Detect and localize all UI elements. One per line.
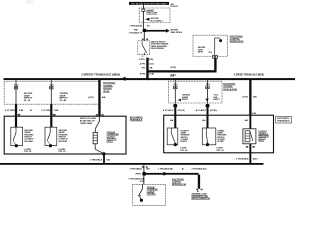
svg-text:IN 4TH: IN 4TH	[181, 140, 188, 143]
svg-text:8 LT BLU: 8 LT BLU	[163, 110, 174, 112]
svg-text:FUSE BLOCK: FUSE BLOCK	[171, 6, 179, 8]
svg-text:PNK: PNK	[136, 173, 142, 175]
svg-text:2 TROUBLE: 2 TROUBLE	[236, 159, 249, 161]
svg-text:HOT IN RUN, BULB TEST AND STAR: HOT IN RUN, BULB TEST AND START	[131, 2, 167, 5]
svg-text:.4 PPL: .4 PPL	[139, 63, 146, 66]
svg-text:(C8): (C8)	[149, 64, 153, 66]
svg-text:(C8): (C8)	[149, 73, 154, 75]
svg-text:INPUT: INPUT	[182, 99, 189, 101]
svg-text:(C8): (C8)	[210, 110, 218, 112]
svg-text:PPL 18: PPL 18	[24, 151, 31, 153]
svg-text:2 TROUBLE A23: 2 TROUBLE A23	[192, 167, 208, 170]
svg-text:PPL 18: PPL 18	[180, 150, 187, 152]
svg-text:2 LT GRN: 2 LT GRN	[41, 110, 50, 112]
svg-text:4 SPEED TRANSAXLE (MD9): 4 SPEED TRANSAXLE (MD9)	[234, 73, 264, 77]
svg-text:PNK: PNK	[134, 30, 139, 32]
svg-text:(LPS): (LPS)	[243, 97, 249, 99]
svg-text:(LPS): (LPS)	[88, 97, 94, 99]
svg-text:TRANSAXLE: TRANSAXLE	[277, 119, 290, 122]
svg-text:4-3 A23: 4-3 A23	[196, 109, 207, 112]
svg-text:1 TROUBLE (B): 1 TROUBLE (B)	[158, 168, 173, 170]
svg-text:PEDAL DEPRESSED): PEDAL DEPRESSED)	[151, 47, 164, 50]
svg-text:INPUT: INPUT	[198, 52, 204, 54]
svg-text:IN 3RD: IN 3RD	[217, 141, 224, 143]
svg-text:PPL 18: PPL 18	[59, 151, 66, 153]
svg-text:3 SPEED TRANSAXLE (MD9): 3 SPEED TRANSAXLE (MD9)	[81, 72, 120, 76]
svg-text:.8 PPL: .8 PPL	[139, 73, 146, 75]
svg-text:(C8): (C8)	[149, 59, 154, 61]
svg-text:2 TROUBLE 18: 2 TROUBLE 18	[129, 33, 143, 35]
svg-text:PANEL DETAILS: PANEL DETAILS	[171, 31, 183, 34]
svg-text:2ND GEAR: 2ND GEAR	[24, 140, 33, 143]
svg-text:BLOCK DETAILS: BLOCK DETAILS	[151, 19, 163, 22]
svg-text:2ND GEAR: 2ND GEAR	[59, 140, 68, 143]
svg-text:.8 PPL: .8 PPL	[139, 59, 146, 61]
svg-text:THIRD GEAR: THIRD GEAR	[80, 122, 92, 125]
svg-text:A23 (C8): A23 (C8)	[178, 109, 185, 112]
svg-text:.8 LT GRN: .8 LT GRN	[5, 110, 16, 112]
svg-text:(LPS): (LPS)	[170, 67, 176, 69]
svg-text:APPLY: APPLY	[213, 98, 220, 101]
svg-text:PPL 18: PPL 18	[217, 150, 224, 152]
svg-text:3 TROUBLE: 3 TROUBLE	[129, 168, 142, 170]
svg-text:2 TROUBLE: 2 TROUBLE	[90, 160, 103, 162]
svg-text:3 TROUBLE (B): 3 TROUBLE (B)	[129, 25, 142, 27]
